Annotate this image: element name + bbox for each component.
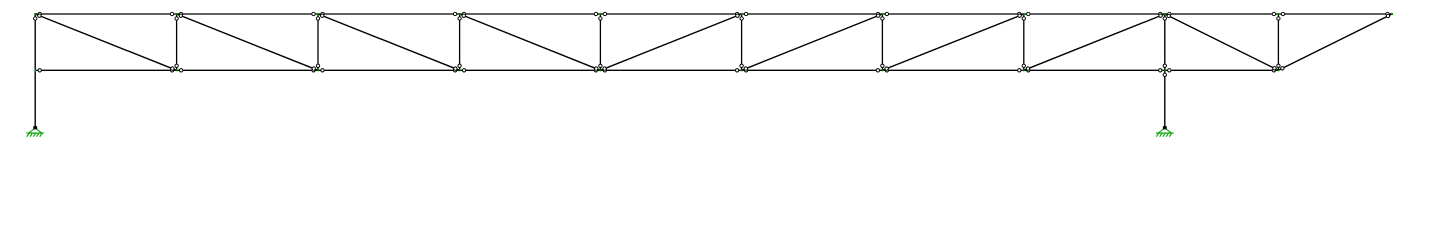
- node T9: [1164, 13, 1166, 15]
- hinge circles at bottom node B9: [1159, 69, 1162, 72]
- node B10: [1277, 69, 1279, 71]
- diagonal D1: [35, 14, 176, 70]
- vertical V4: [459, 14, 461, 70]
- hinge circles at bottom node B10: [1272, 69, 1275, 72]
- diagonal D4: [460, 14, 601, 70]
- vertical V9: [1164, 14, 1166, 126]
- node T5: [599, 13, 601, 15]
- hinge circles at top node T10: [1272, 12, 1275, 15]
- node B4: [459, 69, 461, 71]
- node T8: [1023, 13, 1025, 15]
- vertical V6: [741, 14, 743, 70]
- vertical V10: [1277, 14, 1279, 70]
- hinge circles at top node T3: [312, 12, 315, 15]
- hinge circles at bottom node B5: [594, 69, 597, 72]
- hinge circles at top node T11: [1386, 12, 1389, 15]
- node T3: [317, 13, 319, 15]
- node T1: [34, 13, 36, 15]
- diagonal D5: [600, 14, 741, 70]
- hinge circles at top node T5: [594, 12, 597, 15]
- hinge circles at bottom node B1: [38, 69, 41, 72]
- vertical V1: [34, 14, 36, 126]
- node B5: [599, 69, 601, 71]
- support node left: [29, 128, 42, 133]
- hinge circles at bottom node B4: [453, 69, 456, 72]
- hinge circles at top node T1: [38, 12, 41, 15]
- support node right: [1158, 128, 1171, 133]
- vertical V3: [317, 14, 319, 70]
- diagonal D6: [742, 14, 883, 70]
- node T7: [881, 13, 883, 15]
- diagonal D10: [1278, 14, 1392, 70]
- node B1: [34, 69, 36, 71]
- hinge circles at top node T6: [735, 12, 738, 15]
- hinge circles at bottom node B3: [312, 69, 315, 72]
- hinge circles at top node T4: [453, 12, 456, 15]
- truss structural diagram: [0, 0, 1442, 140]
- vertical V2: [176, 14, 178, 70]
- diagonal D9: [1165, 14, 1279, 70]
- node T2: [176, 13, 178, 15]
- hinge circles at bottom node B7: [876, 69, 879, 72]
- diagonal D7: [882, 14, 1023, 70]
- node B3: [317, 69, 319, 71]
- vertical V7: [881, 14, 883, 70]
- diagonal D2: [177, 14, 318, 70]
- diagonal D3: [318, 14, 460, 70]
- node T6: [741, 13, 743, 15]
- hinge circles at bottom node B8: [1018, 69, 1021, 72]
- hinge circles at top node T9: [1159, 12, 1162, 15]
- vertical V8: [1023, 14, 1025, 70]
- wire bottom chord: [35, 69, 1278, 71]
- node T4: [459, 13, 461, 15]
- node B9: [1164, 69, 1166, 71]
- node B2: [176, 69, 178, 71]
- hinge circles at bottom node B6: [735, 69, 738, 72]
- wire top chord: [35, 13, 1392, 15]
- vertical V5: [599, 14, 601, 70]
- node B7: [881, 69, 883, 71]
- hinge circles at bottom node B2: [170, 69, 173, 72]
- diagonal D8: [1024, 14, 1165, 70]
- hinge circles at top node T2: [170, 12, 173, 15]
- hinge circles at top node T7: [876, 12, 879, 15]
- hinge circles at top node T8: [1018, 12, 1021, 15]
- node T11: [1391, 13, 1393, 15]
- node B6: [741, 69, 743, 71]
- node B8: [1023, 69, 1025, 71]
- node T10: [1277, 13, 1279, 15]
